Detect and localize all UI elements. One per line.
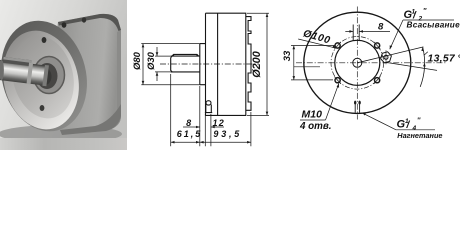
svg-text:Ø30: Ø30 <box>146 51 157 70</box>
svg-text:Всасывание: Всасывание <box>407 21 460 30</box>
arrows at mounting face <box>196 141 204 144</box>
flange face hole bottom <box>40 105 45 111</box>
shaft key plateau <box>172 54 199 56</box>
svg-text:″: ″ <box>423 8 427 15</box>
bottom drain plug circle <box>206 101 211 105</box>
arrow discharge leader <box>362 113 366 116</box>
svg-text:13,57 °: 13,57 ° <box>428 53 460 64</box>
svg-text:Ø200: Ø200 <box>251 51 263 77</box>
label G 1/4 <box>397 117 422 132</box>
body outline rect <box>206 13 246 115</box>
body front face line <box>205 13 207 115</box>
bottom drain plug middle view <box>205 105 212 113</box>
inner circle <box>335 40 380 85</box>
bolt hole BL <box>335 78 340 83</box>
label G 1/2 <box>404 8 428 22</box>
discharge port flares <box>354 101 361 105</box>
flange face bright ring <box>0 23 89 138</box>
arrow dia100 <box>332 45 336 48</box>
photo floor band <box>0 138 127 150</box>
seal boss <box>34 57 65 94</box>
lower reference ray <box>386 62 437 70</box>
bolt circle dash-dot <box>331 37 384 90</box>
flange face inner <box>4 29 83 125</box>
dia200 extension lines <box>247 13 269 115</box>
hex plug suction port <box>381 50 392 64</box>
arrow 61.5 left <box>171 141 175 144</box>
seal boss hole <box>39 68 52 85</box>
arrow dia200 top <box>266 13 269 17</box>
arrow 93.5 right <box>247 141 251 144</box>
dimensions of middle view <box>141 13 269 146</box>
dim 8 line top <box>345 30 390 32</box>
photo background <box>0 0 127 150</box>
svg-text:M10: M10 <box>302 108 323 120</box>
rear cover outline <box>246 17 251 111</box>
suction label rule <box>403 19 454 21</box>
bolt hole TL <box>335 43 340 48</box>
label 13.57 leader <box>424 52 428 55</box>
pump body cylinder <box>48 14 121 135</box>
horizontal centerline <box>296 62 446 64</box>
dia200 dimension line <box>266 13 268 115</box>
discharge label leader <box>362 113 396 130</box>
seal boss dark ring <box>37 63 58 89</box>
flange face hole top <box>42 37 47 43</box>
discharge label rule <box>396 129 435 131</box>
dia30 dimension line <box>156 47 158 81</box>
arrow suction leader <box>390 45 393 49</box>
auxiliary line left of circle <box>294 66 320 68</box>
body top dark chamfer band <box>58 14 121 31</box>
bottom extension lines <box>171 74 251 146</box>
dia80 extension lines <box>141 44 200 85</box>
svg-text:Ø100: Ø100 <box>302 28 332 46</box>
body right edge shade <box>106 30 121 131</box>
angle arc <box>420 47 424 87</box>
svg-text:61,5: 61,5 <box>177 129 203 139</box>
dia80 dimension line <box>142 44 144 85</box>
arrow dia30 top <box>156 52 159 56</box>
suction ray 13.57deg <box>357 47 423 63</box>
dim 33 extension line <box>291 46 335 80</box>
svg-text:8: 8 <box>186 118 191 128</box>
bottom dimension line <box>171 141 251 143</box>
dim 8 label line <box>183 126 200 128</box>
svg-text:″: ″ <box>417 117 421 124</box>
M10 underline <box>300 119 326 121</box>
bolt hole tangential ticks <box>334 42 380 84</box>
arrow dia80 bottom <box>142 81 145 85</box>
suction label leader <box>390 20 403 49</box>
body bottom shade <box>60 104 121 135</box>
body bolt hole A <box>62 22 67 28</box>
arrow angle arc top <box>421 47 424 51</box>
arrow M10 <box>337 84 340 88</box>
arrow angle arc mid <box>423 63 426 67</box>
pump shadow on floor <box>0 125 122 143</box>
top slot lines <box>353 25 359 42</box>
svg-text:Нагнетание: Нагнетание <box>397 131 442 140</box>
arrow dia200 bottom <box>266 112 269 116</box>
bolt hole TR <box>375 43 380 48</box>
vertical centerline <box>356 7 358 120</box>
center hole <box>353 58 362 67</box>
arrow dia30 bottom <box>156 72 159 76</box>
dia100 leader <box>298 39 336 48</box>
M10 leader <box>326 84 339 121</box>
svg-text:Ø80: Ø80 <box>132 51 143 70</box>
svg-text:4 отв.: 4 отв. <box>299 121 332 132</box>
arrow dim12 <box>211 126 215 129</box>
discharge port bottom <box>355 101 359 113</box>
arrow dim8 top right <box>359 30 363 33</box>
arrow dim33 bottom <box>293 76 296 80</box>
shaft end face <box>0 60 4 80</box>
svg-text:93,5: 93,5 <box>213 129 242 139</box>
shaft <box>0 56 49 86</box>
dia30 extension lines <box>155 56 171 72</box>
shaft Q side view outline <box>171 56 200 72</box>
bolt hole BR <box>375 78 380 83</box>
flange disc dark edge <box>0 12 98 141</box>
arrow dim33 top <box>293 46 296 50</box>
arrow dim8 top left <box>349 30 353 33</box>
outer circle <box>304 12 411 113</box>
dim 12 label line <box>211 126 224 128</box>
dim 33 dimension line <box>293 46 295 80</box>
arrow dia80 top <box>142 44 145 48</box>
body bolt hole B <box>82 17 86 22</box>
svg-text:/: / <box>406 120 411 131</box>
svg-text:12: 12 <box>213 118 226 128</box>
svg-text:8: 8 <box>378 21 384 32</box>
arrow dim8 <box>196 126 200 129</box>
spigot front face <box>200 44 206 85</box>
svg-text:33: 33 <box>282 50 293 61</box>
body seam line <box>217 13 219 115</box>
centerline middle view <box>160 63 259 65</box>
